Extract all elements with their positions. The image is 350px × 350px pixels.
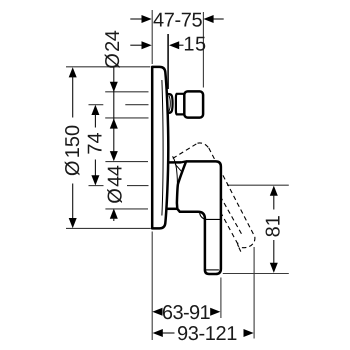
diverter knob neck [176, 94, 184, 115]
escutcheon plate [152, 67, 168, 229]
handle grip body [177, 161, 221, 274]
ext line open-lever tip (x=254.1) [253, 247, 255, 339]
handle sleeve bottom edge [165, 208, 177, 211]
svg-text:81: 81 [263, 215, 285, 237]
ext line lever right (x=220.9) [220, 278, 222, 319]
svg-text:93-121: 93-121 [177, 323, 237, 345]
ext line plate bottom (y=228.4) [66, 227, 151, 229]
open-position lever lower edge (dashed) [217, 190, 243, 236]
diverter knob cap [184, 91, 203, 117]
ext line plate top (y=66.8) [66, 66, 150, 68]
svg-text:15: 15 [183, 33, 206, 55]
svg-text:Ø24: Ø24 [102, 30, 124, 68]
diverter knob dome [166, 94, 173, 113]
escutcheon plate inner line [162, 80, 163, 216]
dimension 63-91 [152, 302, 220, 324]
open-position lever corner (dashed) [198, 143, 209, 148]
ext line knob axis (y=104.7) left seg [89, 104, 104, 106]
dimension 81 [263, 186, 285, 273]
open-position lever inner line (dashed) [221, 212, 240, 247]
ext line sleeve bottom (y=208.9) [105, 208, 148, 210]
svg-text:Ø150: Ø150 [62, 125, 84, 176]
open-position lever tip cap (dashed) [238, 237, 255, 248]
dimension Ø44 lower arrow [105, 165, 127, 221]
open-position lever top edge (dashed) [173, 143, 198, 158]
open-position lever lower edge near neck [175, 164, 184, 174]
handle sleeve top edge [165, 161, 181, 164]
ext line lever bottom (y=273.5) [223, 273, 289, 275]
svg-text:74: 74 [85, 132, 107, 154]
dimension Ø24 (vertical line with arrows) [102, 30, 124, 161]
handle step line (thin) [200, 213, 221, 219]
ext line knob cap bottom (y=117.9) [105, 117, 148, 119]
dimension 93-121 [153, 323, 254, 345]
ext line plate-left top (x=152) [151, 10, 153, 64]
dimension 15 [130, 33, 206, 55]
svg-text:63-91: 63-91 [162, 302, 211, 324]
dimension 47-75 [130, 10, 223, 32]
handle lever bottom inner line (thin) [206, 269, 219, 271]
ext line plate front (x=168.1, black) [167, 34, 169, 89]
svg-text:Ø44: Ø44 [105, 165, 127, 203]
open-position lever tip hook (dashed) [239, 248, 241, 252]
handle top edge rise [180, 161, 187, 162]
diverter knob dome inner line [169, 95, 171, 111]
extension lines (gray thin) [66, 10, 289, 340]
ext line knob axis (y=104.7) right seg [125, 104, 148, 106]
open-position lever right edge (dashed) [209, 148, 255, 237]
svg-text:47-75: 47-75 [153, 10, 202, 32]
dimension 74 [85, 105, 107, 186]
ext line handle axis (y=185.6) right seg [127, 185, 149, 187]
ext line knob cap top (y=91.8) [105, 91, 148, 93]
ext line open-lever top (y=185.2) [227, 184, 289, 186]
open-position lever end cap (dashed arc near neck) [173, 156, 178, 183]
ext line plate-left bottom vertical (x=152.2) [151, 232, 153, 341]
ext line handle axis (y=185.6) left seg [89, 185, 104, 187]
ext line knob tip (x=203.4) [202, 12, 204, 88]
dimension Ø150 [62, 67, 84, 228]
ext line sleeve top (y=161.6) [105, 161, 148, 163]
